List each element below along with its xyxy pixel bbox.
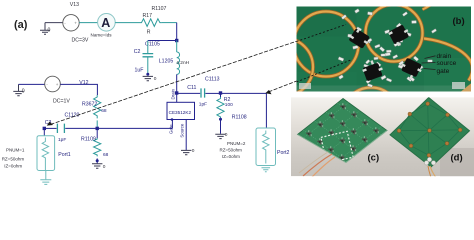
svg-text:drain: drain	[437, 53, 452, 60]
wire node to C2 branch	[148, 40, 177, 42]
svg-text:0: 0	[103, 164, 106, 170]
resistor R3672	[94, 95, 101, 118]
ammeter probe Ids	[98, 13, 116, 31]
svg-text:CE3512K2: CE3512K2	[169, 110, 192, 115]
transistor CE3512K2	[176, 93, 178, 102]
ground under C2	[146, 73, 149, 76]
svg-text:IZ=0ohm: IZ=0ohm	[4, 164, 22, 169]
svg-text:0: 0	[48, 28, 51, 34]
corner arc top-right	[423, 0, 437, 10]
svg-text:100: 100	[225, 102, 233, 108]
svg-text:C11: C11	[187, 85, 196, 91]
svg-text:DC=3V: DC=3V	[72, 37, 89, 43]
wire drain node to C11	[177, 92, 201, 94]
svg-text:C2: C2	[134, 49, 141, 55]
wire ground to V12	[19, 83, 45, 85]
svg-text:C1105: C1105	[145, 42, 160, 48]
gate pin	[171, 118, 174, 121]
svg-text:A: A	[101, 16, 110, 30]
wire node to Port2	[221, 93, 267, 128]
svg-text:Gate: Gate	[168, 124, 173, 134]
corner wedge bottom-right	[461, 81, 474, 92]
svg-text:68: 68	[103, 152, 109, 158]
svg-text:RZ=50ohm: RZ=50ohm	[2, 157, 25, 162]
svg-text:V13: V13	[70, 2, 79, 8]
svg-text:+: +	[56, 82, 59, 87]
svg-text:Port1: Port1	[58, 152, 71, 158]
copper ring left	[255, 38, 313, 96]
ground top-left	[40, 23, 50, 35]
transistor Q bottom-left	[362, 60, 383, 81]
copper ring bottom-center	[343, 88, 400, 145]
smd scatter	[338, 9, 437, 88]
svg-text:0: 0	[154, 76, 157, 82]
wire L1205 to drain node	[176, 74, 178, 93]
wire V12 to corner	[60, 84, 97, 95]
svg-text:0: 0	[225, 132, 228, 138]
copper ring top-left	[294, 12, 359, 77]
svg-text:R1109: R1109	[81, 136, 96, 142]
copper ring right	[424, 39, 473, 81]
svg-text:0: 0	[22, 88, 25, 94]
svg-text:R1108: R1108	[232, 114, 247, 120]
svg-text:1uF: 1uF	[135, 68, 144, 74]
svg-text:PNUM=1: PNUM=1	[6, 147, 25, 152]
callout dashes inside photo	[297, 25, 347, 42]
bottom light band	[297, 86, 472, 92]
node C3	[43, 127, 46, 130]
svg-text:Source: Source	[180, 123, 185, 137]
svg-text:68: 68	[101, 108, 107, 114]
dc source V12	[45, 76, 61, 92]
solder pads bottom edge	[299, 83, 311, 89]
svg-text:(a): (a)	[14, 19, 28, 31]
svg-text:L1205: L1205	[159, 59, 174, 65]
svg-text:R1107: R1107	[152, 6, 167, 12]
ground under R2	[215, 134, 225, 138]
transistor Q top-right	[388, 24, 409, 46]
drain node	[175, 91, 178, 94]
capacitor C1120	[57, 124, 64, 133]
wires from board c	[303, 154, 332, 176]
board c	[298, 99, 388, 164]
ground bottom-left	[13, 84, 23, 95]
wire ammeter to R17	[115, 22, 140, 24]
source pin	[185, 120, 187, 151]
capacitor C2	[147, 41, 149, 54]
resistor R1109	[96, 128, 98, 138]
resistor R2	[220, 93, 222, 97]
connector at board d bottom	[427, 157, 431, 161]
svg-text:Port2: Port2	[277, 150, 290, 156]
ground under source	[181, 150, 191, 154]
inductor L1205	[176, 41, 178, 53]
svg-text:R3672: R3672	[82, 101, 97, 107]
node R3672/R1109	[96, 127, 99, 130]
svg-text:0: 0	[192, 148, 195, 154]
svg-text:Drain: Drain	[171, 88, 176, 99]
svg-text:V12: V12	[79, 80, 88, 86]
copper ring top-right	[366, 5, 423, 62]
ground under R1109	[92, 164, 102, 168]
transistor Q top-left	[349, 28, 370, 49]
node C1105	[175, 39, 178, 42]
gate row wire	[44, 127, 56, 129]
svg-text:+: +	[74, 21, 77, 26]
node C1113	[219, 91, 222, 94]
svg-text:(c): (c)	[368, 153, 380, 164]
svg-text:4.2nH: 4.2nH	[176, 60, 189, 66]
svg-text:(d): (d)	[451, 153, 463, 164]
capacitor C11	[201, 88, 205, 97]
wire corner down to node	[176, 23, 178, 41]
svg-text:PNUM=2: PNUM=2	[227, 141, 246, 146]
wire R17 to corner	[162, 22, 177, 24]
wire ground to V13	[45, 22, 63, 24]
callout line to photo b (from output corner)	[269, 60, 353, 92]
svg-text:gate: gate	[437, 68, 450, 75]
svg-text:1pF: 1pF	[58, 137, 66, 143]
svg-text:Name=Ids: Name=Ids	[91, 33, 113, 38]
svg-text:RZ=50ohm: RZ=50ohm	[220, 147, 243, 152]
photo b	[255, 0, 474, 145]
svg-text:R17: R17	[143, 13, 153, 19]
svg-text:(b): (b)	[453, 16, 465, 27]
svg-text:source: source	[437, 60, 457, 67]
callout line to photo b (from C3 node)	[51, 25, 347, 125]
wire V13 to ammeter	[79, 22, 97, 24]
term Port2	[256, 128, 276, 166]
board d	[390, 98, 470, 168]
svg-text:DC=1V: DC=1V	[53, 98, 70, 104]
svg-text:1pF: 1pF	[199, 102, 207, 108]
svg-text:C1113: C1113	[205, 76, 220, 82]
transistor Q bottom-right	[401, 58, 422, 80]
dashed unit cell on board c	[321, 131, 353, 163]
dc source V13	[63, 15, 79, 31]
svg-text:R2: R2	[224, 97, 231, 103]
pin labels	[422, 56, 436, 70]
resistor R17	[140, 19, 162, 27]
term Port1	[43, 128, 45, 135]
wire C11 to node	[205, 92, 220, 94]
svg-text:IZ=0ohm: IZ=0ohm	[222, 154, 240, 159]
photo strip c and d	[291, 97, 474, 183]
svg-text:R: R	[147, 29, 151, 35]
